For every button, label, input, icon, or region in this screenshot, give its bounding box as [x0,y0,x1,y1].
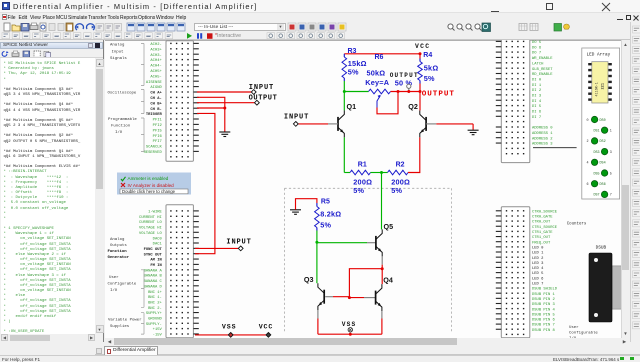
svg-text:AISENSE: AISENSE [146,80,163,84]
svg-text:DO 7: DO 7 [532,51,541,55]
svg-text:Outputs: Outputs [110,244,127,248]
svg-text:PFI5: PFI5 [153,129,163,133]
svg-text:OUTPUT: OUTPUT [390,71,419,78]
wire CH A+ to INPUT terminal [197,91,251,93]
svg-text:Analog: Analog [110,237,125,242]
junction VSS rail [349,332,352,335]
svg-text:Configurable: Configurable [108,281,137,286]
svg-text:CH A-: CH A- [150,97,161,101]
svg-text:OUTPUT: OUTPUT [422,90,455,98]
wire INPUT to Q1 base [298,122,338,124]
junction CH B- [223,106,226,109]
wire ADDRESS bus stub [533,146,577,148]
svg-text:PFI6: PFI6 [153,134,163,138]
svg-text:FUNC OUT: FUNC OUT [144,247,163,251]
wire Q3 base lead [325,295,349,297]
wire CH B- tee [197,107,225,109]
svg-text:WR_ENABLE: WR_ENABLE [532,57,553,61]
wire R2 to Q2 emitter [408,137,420,172]
svg-text:DSUB PIN 6: DSUB PIN 6 [532,318,556,322]
svg-text:SUPPLY-: SUPPLY- [146,322,162,326]
svg-text:LED 1: LED 1 [532,251,544,255]
svg-text:CTR1_OUT: CTR1_OUT [532,236,551,240]
svg-text:50kΩ: 50kΩ [367,68,386,77]
terminal VCC (rail) [259,323,274,337]
svg-text:ADDRESS 2: ADDRESS 2 [532,137,553,141]
svg-text:INPUT: INPUT [284,113,309,121]
svg-text:CH B+: CH B+ [150,102,162,106]
svg-text:Input: Input [112,50,124,54]
svg-text:3: 3 [610,150,612,154]
svg-text:LED 5: LED 5 [532,272,544,276]
wire Q4 base lead [364,296,376,298]
svg-text:Double click here to change: Double click here to change [122,188,176,193]
wire VSS bottom rail [318,333,382,335]
svg-text:LED 0: LED 0 [532,246,544,250]
section label: Variable Power Supplies [108,312,144,333]
svg-text:VCC: VCC [259,323,274,330]
svg-text:5%: 5% [391,186,402,195]
toolbar row 2 [0,32,640,40]
junction probe [407,90,410,93]
svg-text:VCC: VCC [415,42,430,49]
svg-text:DI 0: DI 0 [532,78,542,82]
terminal VSS (circle) [342,320,357,333]
node C junction (green) [315,240,318,243]
svg-text:R3: R3 [348,47,357,54]
svg-text:Analog: Analog [110,42,125,47]
transistor Q2 [408,101,426,137]
svg-text:Signals: Signals [110,55,127,60]
schematic canvas [105,40,621,338]
svg-text:ACH5-: ACH5- [150,75,161,79]
svg-text:DSUB: DSUB [596,245,607,250]
svg-text:Ammeter is enabled: Ammeter is enabled [128,176,169,181]
toolbar row 1 [0,22,640,32]
svg-text:5kΩ: 5kΩ [424,63,439,72]
resistor R3 15k [342,47,367,80]
wire ground to R5 [296,198,317,209]
svg-text:CURRENT HI: CURRENT HI [139,215,162,219]
svg-text:2: 2 [586,140,588,144]
transistor Q1 [338,101,356,137]
section label: User Configurable I/O [108,269,145,307]
svg-text:-15V: -15V [153,333,163,337]
wire R6 right to output node [391,90,421,92]
resistor R1 200 [344,161,372,195]
svg-text:AIGND: AIGND [150,86,162,90]
transistor Q3 [304,275,324,310]
resistor R4 5k [418,51,439,83]
svg-text:CTR0_OUT: CTR0_OUT [532,220,551,224]
section label: Function Generator [108,249,130,260]
svg-text:I/O: I/O [115,130,123,135]
svg-text:DSUB PIN 8: DSUB PIN 8 [532,328,556,332]
svg-text:PFI1: PFI1 [153,118,163,122]
LED DS5 [593,169,611,176]
svg-text:ACH4+: ACH4+ [150,59,162,63]
svg-text:DS1: DS1 [593,129,599,133]
section label: Programmable Function I/O [108,117,144,151]
svg-text:DAC1: DAC1 [153,242,163,246]
svg-text:DS4: DS4 [600,161,606,165]
node B junction (green) [380,171,383,174]
svg-text:CH B-: CH B- [150,107,161,111]
wire R4 to output node [419,83,421,91]
svg-text:GROUND: GROUND [148,317,162,321]
svg-text:BANANA B: BANANA B [144,274,163,278]
svg-text:PFI7: PFI7 [153,140,162,144]
svg-text:CTR1_SOURCE: CTR1_SOURCE [532,225,558,229]
wire node A to R6 (green) [344,90,368,92]
svg-text:DSUB PIN 2: DSUB PIN 2 [532,297,556,301]
svg-text:VOLTAGE LO: VOLTAGE LO [139,231,163,235]
wire Q1 emitter to R1 (green) [343,137,345,172]
svg-text:1-WIRE: 1-WIRE [148,210,162,214]
svg-text:Oscilloscope: Oscilloscope [108,90,137,95]
svg-text:Q3: Q3 [304,275,314,284]
svg-text:LED 6: LED 6 [532,277,544,281]
svg-text:SCANCLK: SCANCLK [146,145,163,149]
potentiometer R6 50k [365,54,412,108]
svg-text:DI 7: DI 7 [532,115,541,119]
NI ELVIS connector block (counters/DSUB side) [496,206,558,337]
svg-text:FREQ_OUT: FREQ_OUT [532,241,551,245]
wire TRIGGER to SYNC OUT [195,113,215,253]
svg-text:5%: 5% [353,186,364,195]
svg-text:DO 5: DO 5 [532,41,542,45]
wire Q3 emitter down to VSS rail [317,310,319,334]
svg-text:DI 6: DI 6 [532,110,542,114]
svg-text:LED 4: LED 4 [532,267,544,271]
svg-text:Variable Power: Variable Power [108,317,142,322]
terminal INPUT (lower) [226,238,251,250]
svg-text:221: 221 [602,83,606,89]
svg-text:1: 1 [610,129,612,133]
svg-text:BNC 2-: BNC 2- [148,306,162,310]
svg-text:Generator: Generator [108,255,130,260]
ground (left) [219,132,230,137]
svg-text:R6: R6 [375,54,384,61]
terminal INPUT (top) [249,83,274,94]
svg-text:R5: R5 [321,198,330,205]
svg-text:ACH2-: ACH2- [150,43,161,47]
svg-text:BNC 1-: BNC 1- [148,296,162,300]
wire R5 to node C (green) [316,230,318,242]
wire Q4 emitter down to VSS rail [381,311,383,334]
svg-text:DSUB PIN 3: DSUB PIN 3 [532,303,556,307]
svg-text:Supplies: Supplies [110,324,130,329]
svg-text:+15V: +15V [153,328,163,332]
LED DS7 [593,191,611,198]
LED DS6 [586,180,605,187]
wire node C down to Q3 collector (green) [316,242,318,283]
svg-text:VSS: VSS [342,320,357,327]
SPICE Netlist Viewer panel [0,40,104,342]
resistor pack 4116R-1 [588,61,612,102]
section label: Analog Outputs [110,237,127,248]
terminal VSS (rail) [222,323,237,337]
wire FUNC OUT to INPUT terminal (lower) [195,247,238,249]
svg-text:Q2: Q2 [408,101,418,110]
wire node C to Q5 base (green) [317,241,376,243]
svg-text:CTR0_GATE: CTR0_GATE [532,215,553,219]
junction Q5/Q4 [381,267,384,270]
svg-text:Function: Function [108,249,128,254]
svg-text:4: 4 [586,161,588,165]
svg-text:6: 6 [586,183,588,187]
selection dashed box [285,188,452,333]
svg-text:ACH3-: ACH3- [150,53,161,57]
svg-text:DSUB PIN 7: DSUB PIN 7 [532,323,555,327]
wire CH B+ to OUTPUT terminal [197,101,254,103]
svg-text:5%: 5% [320,220,331,229]
section label: Analog Input Signals [110,42,144,85]
svg-text:DAC0: DAC0 [153,237,163,241]
svg-text:IV Analyzer is disabled: IV Analyzer is disabled [128,183,175,188]
svg-text:BANANA A: BANANA A [144,269,163,273]
svg-text:INPUT: INPUT [226,238,251,246]
svg-text:Counters: Counters [567,222,587,226]
svg-text:I/O: I/O [110,288,118,293]
svg-text:DSUB PIN 4: DSUB PIN 4 [532,308,556,312]
svg-text:OUTPUT: OUTPUT [249,94,278,102]
svg-text:PFI2: PFI2 [153,124,163,128]
svg-text:BNC 2+: BNC 2+ [148,301,162,305]
wire Q2 base to ground [426,123,473,129]
svg-text:Key=A: Key=A [365,78,389,87]
svg-text:TRIGGER: TRIGGER [146,113,163,117]
transistor Q5 [376,222,393,256]
svg-text:DS0: DS0 [600,118,606,122]
canvas horizontal scrollbar [105,338,629,346]
svg-text:R4: R4 [423,51,432,58]
LED DS4 [586,159,605,166]
DSUB connector [589,245,621,322]
wire Q4 collector from junction [381,268,383,283]
svg-text:BNC 1+: BNC 1+ [148,290,162,294]
junction bases [348,296,351,299]
svg-text:VSS: VSS [222,323,237,330]
svg-text:DS2: DS2 [600,140,606,144]
svg-text:DI 4: DI 4 [532,99,542,103]
svg-text:Function: Function [111,123,131,128]
svg-text:DSUB PIN 5: DSUB PIN 5 [532,313,556,317]
resistor R2 200 [382,161,411,195]
svg-text:BANANA C: BANANA C [144,280,163,284]
LED DS2 [586,137,605,144]
svg-text:ADDRESS 3: ADDRESS 3 [532,142,553,146]
svg-text:CURRENT LO: CURRENT LO [139,221,163,225]
svg-text:5: 5 [610,172,612,176]
LED DS1 [593,127,611,134]
section label: User Configurable I/O (right) [569,325,598,341]
svg-text:4116R-1: 4116R-1 [596,82,600,96]
svg-text:DSUB PIN 1: DSUB PIN 1 [532,292,556,296]
svg-text:SYNC OUT: SYNC OUT [144,253,163,257]
svg-text:DI 2: DI 2 [532,89,542,93]
LED Array panel [582,48,620,199]
svg-text:DI 5: DI 5 [532,105,542,109]
wire -15V rail with VSS VCC terminals [195,333,268,335]
status bar [0,355,640,360]
svg-text:LATCH: LATCH [532,62,543,66]
canvas vertical scrollbar [621,40,630,338]
svg-text:DI 1: DI 1 [532,83,542,87]
svg-text:BANANA D: BANANA D [144,285,163,289]
svg-text:Q4: Q4 [383,275,393,284]
svg-text:DS7: DS7 [593,193,599,197]
menu bar [0,13,640,23]
node VCC [415,42,430,55]
svg-text:LED 3: LED 3 [532,261,544,265]
svg-text:ACH4-: ACH4- [150,64,161,68]
svg-text:Q1: Q1 [347,101,357,110]
svg-text:DI 3: DI 3 [532,94,542,98]
svg-text:DS6: DS6 [600,183,606,187]
svg-text:Q5: Q5 [384,222,394,231]
svg-text:INPUT: INPUT [249,83,274,91]
svg-text:Configurable: Configurable [569,330,598,335]
svg-text:SUPPLY+: SUPPLY+ [146,312,163,316]
svg-text:R1: R1 [358,161,367,168]
svg-text:VOLTAGE HI: VOLTAGE HI [139,226,162,230]
terminal INPUT (mid) [284,113,309,126]
simulation info box (Ammeter/IV Analyzer) [117,172,191,194]
wire R6 wiper loop [377,92,398,113]
node A junction [343,90,346,93]
wire R3 to node A (green) [343,81,345,92]
NI ELVIS connector block (analog/scope side) [144,40,199,161]
svg-text:FM IN: FM IN [150,264,162,268]
wire VCC top rail [344,52,420,54]
svg-text:CH A+: CH A+ [150,91,162,95]
svg-text:ADDRESS 1: ADDRESS 1 [532,131,553,135]
svg-text:0: 0 [586,118,588,122]
svg-text:GLB_RESET: GLB_RESET [532,67,553,71]
svg-text:ACH3+: ACH3+ [150,48,162,52]
svg-text:ACH5+: ACH5+ [150,70,162,74]
NI ELVIS connector block (digital side) [496,39,553,163]
transistor Q4 [376,275,393,311]
svg-text:AM IN: AM IN [150,258,162,262]
ground (R5) [290,209,301,214]
svg-text:5%: 5% [424,73,435,82]
svg-text:RD_ENABLE: RD_ENABLE [532,73,553,77]
svg-text:CTR1_GATE: CTR1_GATE [532,231,553,235]
LED DS3 [593,148,611,154]
design tab bar [95,346,640,356]
svg-text:Programmable: Programmable [108,117,137,122]
wire node A down to Q1 collector (green) [343,91,345,110]
svg-text:DS5: DS5 [593,172,599,176]
junction output/R4 [419,90,422,93]
wire output node down to Q2 collector [419,91,421,110]
wire R1 to node B (green) [371,171,382,173]
junction wiper [397,90,400,93]
svg-text:DO 6: DO 6 [532,46,542,50]
svg-text:LED 7: LED 7 [532,282,543,286]
svg-text:ADDRESS 0: ADDRESS 0 [532,126,553,130]
svg-text:User: User [569,325,579,330]
svg-text:7: 7 [610,193,612,197]
svg-text:CTR0_SOURCE: CTR0_SOURCE [532,210,558,214]
title bar [0,0,640,13]
resistor R5 8.2k [315,198,342,230]
svg-text:LED 2: LED 2 [532,256,544,260]
svg-text:R2: R2 [396,161,405,168]
wire Q5 emitter down [381,256,383,268]
svg-text:5%: 5% [348,67,359,76]
ground (right) [468,130,479,135]
svg-text:RESERVED: RESERVED [144,151,163,155]
svg-text:DS3: DS3 [593,150,599,154]
svg-text:DSUB SHIELD: DSUB SHIELD [532,287,558,291]
wire bias loop to Q3/Q4 bases [349,268,382,297]
svg-text:8.2kΩ: 8.2kΩ [320,209,341,218]
wire node B down to Q5 collector (green) [381,172,383,229]
section label: Oscilloscope [108,89,145,113]
svg-text:LED Array: LED Array [587,52,611,57]
terminal OUTPUT (top) [249,94,278,104]
LED DS0 [586,116,605,123]
wire CH A- down to ground [197,97,225,131]
NI ELVIS connector block (function generator side) [139,204,199,337]
output probe terminal [390,71,419,91]
svg-text:User: User [109,275,119,280]
right instruments toolbar [630,22,640,342]
